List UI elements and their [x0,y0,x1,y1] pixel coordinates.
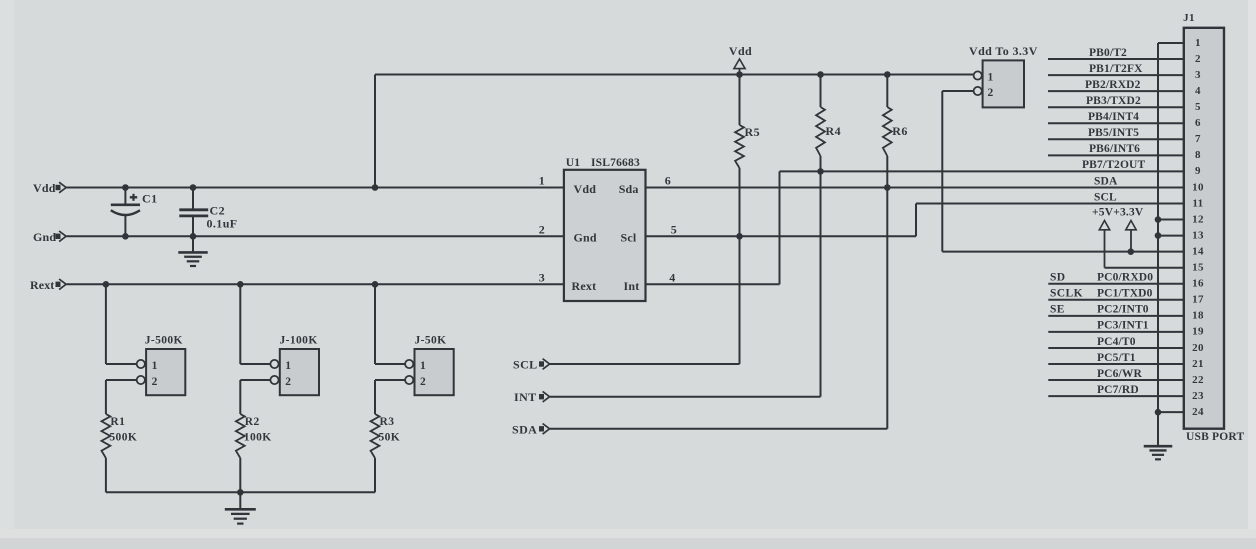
net label PB3/TXD2 [1086,95,1141,107]
svg-text:19: 19 [1192,326,1204,338]
wire J1 pin 12 stub [1158,219,1184,221]
wire branch 1 drop [105,284,107,364]
wire ground bus [1157,43,1159,446]
wire jumper 2 pin2 drop [239,380,241,414]
jumper J-50K body [405,335,454,396]
U1 label Vdd [574,182,597,196]
svg-text:Int: Int [624,279,640,293]
net label SCLK [1050,288,1083,300]
junction R5-Scl [736,233,743,240]
svg-text:R5: R5 [745,125,760,139]
power symbol +5V [1099,221,1109,268]
svg-text:PB0/T2: PB0/T2 [1089,47,1127,59]
terminal Rext [30,278,66,292]
net label SD [1050,272,1066,284]
U1 pin 2 number [539,222,545,236]
svg-text:PC2/INT0: PC2/INT0 [1097,304,1149,316]
svg-text:PC7/RD: PC7/RD [1097,384,1139,396]
svg-text:C2: C2 [210,204,225,218]
wire SDA terminal [550,428,887,430]
J1 pin 13 number [1192,229,1204,241]
svg-text:Vdd: Vdd [729,44,752,58]
terminal Vdd [33,181,66,195]
ground below J1 [1144,446,1173,459]
wire J1 pin 23 stub [1048,395,1184,397]
svg-text:6: 6 [1195,117,1201,129]
wire J1 pin 20 stub [1048,347,1184,349]
jumper J2 Vdd To 3.3V body [969,44,1038,107]
svg-text:SCL: SCL [513,358,538,372]
wire J1 pin 4 stub [1048,90,1184,92]
resistor R4 [816,75,841,397]
wire J1 pin 2 stub [1048,58,1184,60]
resistor R2 [236,414,272,492]
wire J1 pin 24 stub [1158,411,1184,413]
wire branch 2 to jumper pin1 [240,363,271,365]
resistor R5 [735,75,760,365]
junction riser-Vdd [372,184,379,191]
svg-text:PB7/T2OUT: PB7/T2OUT [1082,159,1146,171]
svg-text:1: 1 [152,360,158,372]
svg-text:Gnd: Gnd [574,231,597,245]
J1 pin 6 number [1195,117,1201,129]
svg-text:1: 1 [420,360,426,372]
net label PB7/T2OUT [1082,159,1146,171]
J1 pin 23 number [1192,390,1204,402]
wire Scl riser [915,204,917,237]
wire J1 pin 21 stub [1048,363,1184,365]
svg-text:Vdd: Vdd [574,182,597,196]
svg-text:PC5/T1: PC5/T1 [1097,352,1136,364]
junction bus pin12 [1155,216,1162,223]
J1 pin 14 number [1192,245,1204,257]
wire Int riser [779,171,781,284]
svg-text:C1: C1 [142,192,157,206]
svg-text:PB5/INT5: PB5/INT5 [1088,127,1139,139]
U1 label Scl [621,231,637,245]
wire jumper 3 pin2 drop [374,380,376,414]
wire jumper 2 pin2 [240,379,271,381]
U1 label Sda [619,182,639,196]
svg-text:2: 2 [152,376,158,388]
wire branch 1 to jumper pin1 [106,363,137,365]
J1 pin 24 number [1192,406,1204,418]
wire jumper 3 pin2 [375,379,406,381]
U1 pin 6 number [665,174,671,188]
J1 pin 7 number [1195,133,1201,145]
svg-text:17: 17 [1192,294,1204,306]
svg-text:8: 8 [1195,149,1201,161]
svg-text:14: 14 [1192,245,1204,257]
wire J1 pin 1 stub [1158,42,1184,44]
wire Sda net (U1 pin6 to J1 pin10) [646,187,1184,189]
wire branch 2 drop [239,284,241,364]
svg-text:PC0/RXD0: PC0/RXD0 [1097,272,1153,284]
wire Gnd rail [67,235,564,237]
wire INT terminal [550,396,821,398]
jumper J-500K body [137,335,186,396]
svg-text:R1: R1 [110,416,125,428]
svg-text:R2: R2 [245,416,260,428]
op-amp U1 ISL76683 body [564,157,646,301]
J1 pin 4 number [1195,85,1201,97]
wire top Vdd rail [375,74,974,76]
svg-text:R4: R4 [826,124,841,138]
svg-text:2: 2 [420,376,426,388]
U1 pin 1 number [539,174,545,188]
J1 pin 17 number [1192,294,1204,306]
label USB PORT [1186,431,1245,443]
power symbol Vdd [729,44,752,75]
svg-text:Sda: Sda [619,182,639,196]
net label PB6/INT6 [1089,143,1140,155]
svg-text:1: 1 [285,360,291,372]
net label PC1/TXD0 [1097,288,1153,300]
wire branch 3 to jumper pin1 [375,363,406,365]
wire Int net (U1 pin4 to riser) [646,283,780,285]
svg-text:+5V+3.3V: +5V+3.3V [1092,207,1144,219]
junction Rext branch 2 [237,281,244,288]
J1 pin 18 number [1192,310,1204,322]
wire +5V to J1 pin15 [1105,267,1184,269]
U1 label Gnd [574,231,597,245]
net label PC7/RD [1097,384,1139,396]
U1 label Int [624,279,640,293]
svg-text:PB6/INT6: PB6/INT6 [1089,143,1140,155]
wire +V net to J1 pin14 [942,251,1184,253]
svg-text:4: 4 [669,270,675,284]
svg-text:20: 20 [1192,342,1204,354]
wire bottom rail [106,491,375,493]
svg-text:PC1/TXD0: PC1/TXD0 [1097,288,1153,300]
svg-text:2: 2 [988,87,994,99]
wire J1 pin 22 stub [1048,379,1184,381]
junction R6-Sda [884,184,891,191]
wire jumper 1 pin2 [106,379,137,381]
wire jumper pin2 to x942 [942,90,973,92]
junction C2-Vdd [190,184,197,191]
svg-text:ISL76683: ISL76683 [591,157,640,169]
svg-text:100K: 100K [244,431,272,443]
svg-text:R3: R3 [380,416,395,428]
svg-text:7: 7 [1195,133,1201,145]
svg-text:1: 1 [1195,37,1201,49]
svg-text:13: 13 [1192,229,1204,241]
J1 pin 12 number [1192,213,1204,225]
wire branch 3 drop [374,284,376,364]
svg-text:Rext: Rext [30,278,54,292]
wire Rext rail [67,283,564,285]
svg-text:2: 2 [1195,53,1201,65]
capacitor C1 [111,188,158,237]
svg-text:SCL: SCL [1094,191,1117,203]
svg-text:J-100K: J-100K [280,335,318,347]
J1 pin 11 number [1192,197,1203,209]
svg-text:Rext: Rext [572,279,597,293]
net label PB1/T2FX [1089,63,1143,75]
resistor R3 [371,414,401,492]
svg-text:12: 12 [1192,213,1204,225]
svg-text:50K: 50K [379,431,401,443]
net label PC6/WR [1097,368,1143,380]
svg-text:PC4/T0: PC4/T0 [1097,336,1136,348]
net label PB5/INT5 [1088,127,1139,139]
wire jumper 1 pin2 drop [105,380,107,414]
junction Rext branch 3 [372,281,379,288]
U1 pin 3 number [539,270,545,284]
svg-text:3: 3 [1195,69,1201,81]
svg-text:500K: 500K [109,431,137,443]
junction bus pin24 [1155,409,1162,416]
ground bottom [225,492,256,523]
svg-text:5: 5 [671,222,677,236]
svg-text:6: 6 [665,174,671,188]
J1 pin 21 number [1192,358,1204,370]
ground below C2 [178,236,207,266]
net label PC5/T1 [1097,352,1136,364]
svg-text:Vdd: Vdd [33,181,56,195]
svg-text:23: 23 [1192,390,1204,402]
svg-text:U1: U1 [566,157,581,169]
net label PB4/INT4 [1088,111,1139,123]
U1 label Rext [572,279,597,293]
net label PB2/RXD2 [1085,79,1141,91]
svg-text:SE: SE [1050,304,1065,316]
svg-text:PB4/INT4: PB4/INT4 [1088,111,1139,123]
J1 pin 16 number [1192,278,1204,290]
J1 pin 8 number [1195,149,1201,161]
wire J1 pin 7 stub [1048,138,1184,140]
svg-text:21: 21 [1192,358,1204,370]
junction C1-Vdd [122,184,129,191]
svg-text:SCLK: SCLK [1050,288,1083,300]
svg-text:0.1uF: 0.1uF [207,217,238,231]
svg-text:R6: R6 [892,124,907,138]
svg-text:SDA: SDA [1094,175,1118,187]
J1 pin 1 number [1195,37,1201,49]
svg-text:3: 3 [539,270,545,284]
svg-text:INT: INT [514,390,537,404]
svg-text:J-50K: J-50K [415,335,447,347]
svg-text:PB3/TXD2: PB3/TXD2 [1086,95,1141,107]
resistor R6 [883,75,908,429]
svg-text:Scl: Scl [621,231,637,245]
junction Vdd arrow-rail [736,71,743,78]
net label SCL [1094,191,1117,203]
svg-text:15: 15 [1192,262,1204,274]
wire J1 pin 5 stub [1048,106,1184,108]
junction bus pin13 [1155,232,1162,239]
svg-text:USB PORT: USB PORT [1186,431,1245,443]
wire Int to J1 pin9 [780,170,1184,172]
terminal Gnd [33,230,66,244]
J1 pin 19 number [1192,326,1204,338]
junction C2-Gnd [190,233,197,240]
svg-text:2: 2 [539,222,545,236]
junction R4-rail [817,71,824,78]
svg-text:10: 10 [1192,181,1204,193]
svg-text:SDA: SDA [512,422,537,436]
terminal INT [514,390,550,404]
wire J1 pin 17 stub [1048,299,1184,301]
net label +5V+3.3V [1092,207,1144,219]
junction R4-Int [817,168,824,175]
connector J1 body [1183,12,1224,429]
svg-text:18: 18 [1192,310,1204,322]
J1 pin 10 number [1192,181,1204,193]
capacitor C2 [179,188,237,237]
J1 pin 3 number [1195,69,1201,81]
svg-text:PB1/T2FX: PB1/T2FX [1089,63,1143,75]
junction R6-rail [884,71,891,78]
svg-text:5: 5 [1195,101,1201,113]
wire J1 pin 8 stub [1048,154,1184,156]
net label PC2/INT0 [1097,304,1149,316]
wire Scl to J1 pin11 [916,203,1184,205]
J1 pin 2 number [1195,53,1201,65]
net label PC4/T0 [1097,336,1136,348]
resistor R1 [102,414,138,492]
svg-text:PB2/RXD2: PB2/RXD2 [1085,79,1141,91]
wire J1 pin 3 stub [1048,74,1184,76]
wire Vdd rail [67,187,564,189]
wire J1 pin 16 stub [1048,283,1184,285]
net label SE [1050,304,1065,316]
power symbol +3.3V [1126,221,1136,252]
svg-text:SD: SD [1050,272,1066,284]
svg-text:PC6/WR: PC6/WR [1097,368,1143,380]
svg-text:2: 2 [285,376,291,388]
svg-text:11: 11 [1192,197,1203,209]
svg-text:9: 9 [1195,165,1201,177]
wire J1 pin 6 stub [1048,122,1184,124]
U1 pin 5 number [671,222,677,236]
net label SDA [1094,175,1118,187]
svg-text:16: 16 [1192,278,1204,290]
jumper J-100K body [270,335,319,396]
wire riser Vdd to top rail [374,75,376,188]
junction Rext branch 1 [103,281,110,288]
wire J1 pin 18 stub [1048,315,1184,317]
svg-text:Vdd To 3.3V: Vdd To 3.3V [969,44,1038,58]
J1 pin 20 number [1192,342,1204,354]
svg-text:24: 24 [1192,406,1204,418]
wire riser x942 [941,91,943,252]
junction C1-Gnd [122,233,129,240]
J1 pin 22 number [1192,374,1204,386]
net label PB0/T2 [1089,47,1127,59]
svg-text:1: 1 [988,71,994,83]
junction +3.3V on pin14 net [1128,248,1135,255]
net label PC0/RXD0 [1097,272,1153,284]
svg-text:22: 22 [1192,374,1204,386]
J1 pin 5 number [1195,101,1201,113]
terminal SCL [513,358,550,372]
U1 pin 4 number [669,270,675,284]
terminal SDA [512,422,550,436]
wire SCL terminal [550,363,740,365]
net label PC3/INT1 [1097,320,1149,332]
J1 pin 15 number [1192,262,1204,274]
svg-text:1: 1 [539,174,545,188]
svg-text:Gnd: Gnd [33,230,56,244]
junction bottom rail [237,489,244,496]
J1 pin 9 number [1195,165,1201,177]
svg-text:J1: J1 [1183,12,1195,24]
wire J1 pin 13 stub [1158,235,1184,237]
svg-text:4: 4 [1195,85,1201,97]
svg-text:PC3/INT1: PC3/INT1 [1097,320,1149,332]
svg-text:J-500K: J-500K [145,335,183,347]
wire J1 pin 19 stub [1048,331,1184,333]
wire Scl net (U1 pin5 to corner) [646,235,917,237]
